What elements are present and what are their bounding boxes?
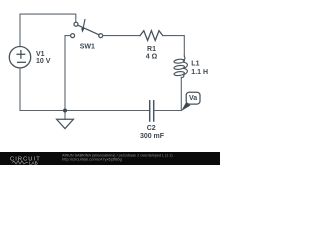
svg-text:300 mF: 300 mF [140,133,165,140]
svg-text:http://circuitlab.com/c47yx6j3: http://circuitlab.com/c47yx6j3f86g [62,157,122,162]
svg-text:10 V: 10 V [36,58,51,65]
svg-text:Va: Va [189,95,197,102]
svg-text:1.1 H: 1.1 H [191,69,208,76]
svg-text:R1: R1 [147,46,156,53]
svg-text:SW1: SW1 [80,44,95,51]
svg-text:4 Ω: 4 Ω [146,53,158,60]
svg-text:L1: L1 [191,61,199,68]
svg-text:C2: C2 [147,125,156,132]
svg-text:LAB: LAB [29,161,38,165]
